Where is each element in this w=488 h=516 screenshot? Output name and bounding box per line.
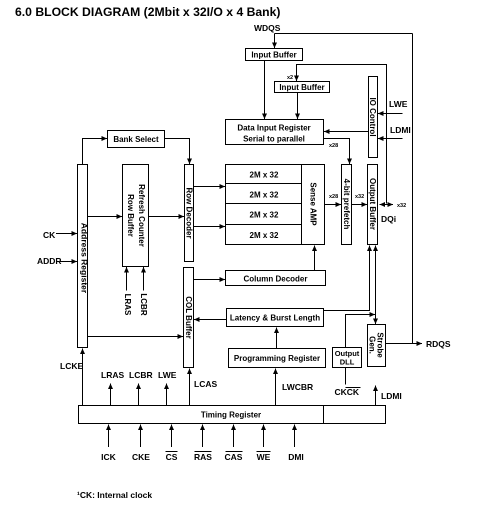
input buffer U2 (data) (275, 82, 330, 93)
svg-text:LCAS: LCAS (194, 379, 217, 389)
svg-text:Input Buffer: Input Buffer (251, 51, 296, 60)
svg-text:DLL: DLL (340, 358, 355, 367)
programming register (229, 349, 326, 368)
column decoder (226, 271, 326, 286)
svg-text:LRAS: LRAS (101, 370, 124, 380)
address register (78, 165, 90, 348)
svg-text:4-bit prefetch: 4-bit prefetch (342, 179, 351, 230)
pin WEbar label (257, 452, 271, 463)
wire LCBR into refresh counter (143, 267, 145, 291)
svg-text:WE: WE (257, 452, 271, 462)
svg-text:LWCBR: LWCBR (282, 382, 313, 392)
svg-text:Data Input Register: Data Input Register (237, 124, 310, 133)
svg-text:Output Buffer: Output Buffer (368, 178, 377, 230)
svg-text:DMI: DMI (288, 452, 304, 462)
wire LCKE timing register to address register (82, 349, 84, 406)
pin CSbar label (166, 452, 178, 463)
wire input buffer 1 to data input register (264, 61, 266, 120)
svg-text:Serial to parallel: Serial to parallel (243, 135, 305, 144)
data input register (serial to parallel) (226, 120, 324, 145)
wire input buffer 2 to data input register (297, 93, 299, 120)
svg-text:2M x 32: 2M x 32 (250, 191, 279, 200)
svg-text:6.0 BLOCK DIAGRAM (2Mbit x 32I: 6.0 BLOCK DIAGRAM (2Mbit x 32I/O x 4 Ban… (15, 5, 280, 19)
svg-text:Sense AMP: Sense AMP (309, 182, 318, 226)
wire RAS input (202, 425, 204, 448)
wire bank select to row decoder (165, 139, 190, 165)
wire WDQS down to input buffer (274, 34, 276, 49)
svg-text:Row Decoder: Row Decoder (185, 187, 194, 238)
wire right vertical rail WDQS to RDQS line (412, 34, 414, 344)
wire address register to col buffer (lower) (88, 336, 184, 338)
wire latency to col buffer (194, 319, 227, 321)
wire LWE stub (166, 384, 168, 406)
svg-text:Row Buffer: Row Buffer (126, 194, 135, 237)
input buffer U1 (WDQS) (246, 49, 303, 61)
wire ADDR to address register (60, 261, 77, 263)
svg-text:Bank Select: Bank Select (113, 135, 159, 144)
wire CK to address register (56, 233, 77, 235)
wire address register to bank select (83, 139, 108, 165)
svg-text:x28: x28 (329, 143, 338, 149)
svg-text:Address Register: Address Register (80, 223, 90, 294)
pin RASbar label (194, 452, 212, 463)
timing register (79, 406, 386, 424)
wire 4-bit prefetch to output buffer (352, 204, 368, 206)
4-bit prefetch (342, 165, 352, 245)
svg-text:LRAS: LRAS (123, 294, 132, 316)
svg-text:IO Control: IO Control (368, 97, 377, 136)
svg-text:CAS: CAS (225, 452, 243, 462)
wire col buffer to column decoder (194, 279, 226, 281)
wire LRAS into refresh counter (126, 267, 128, 291)
wire address register to refresh counter (88, 216, 123, 218)
memory bank array 2M x 32 x4 (226, 165, 302, 245)
wire column decoder to sense amp (314, 246, 316, 271)
wire strobe gen to RDQS (386, 343, 423, 345)
wire LWCBR timing register to programming register (275, 369, 277, 406)
svg-text:LCBR: LCBR (139, 293, 148, 315)
svg-text:x32: x32 (397, 203, 406, 209)
svg-text:x2: x2 (287, 75, 293, 81)
svg-text:CS: CS (166, 452, 178, 462)
svg-text:LCBR: LCBR (129, 370, 153, 380)
svg-text:RDQS: RDQS (426, 339, 451, 349)
wire sense amp to 4-bit prefetch (325, 204, 342, 206)
wire LWE stub into IO control (378, 113, 403, 115)
output DLL (333, 348, 362, 368)
svg-text:CKCK: CKCK (335, 387, 360, 397)
svg-text:Refresh Counter: Refresh Counter (137, 184, 146, 247)
wire DLL rail down to strobe gen (375, 315, 377, 325)
wire DQ riser to input buffer 2 (297, 65, 387, 204)
wire refresh counter to row decoder (149, 216, 185, 218)
wire LRAS stub (110, 384, 112, 406)
svg-text:LWE: LWE (389, 99, 408, 109)
refresh counter / row buffer (123, 165, 149, 267)
svg-text:LDMI: LDMI (381, 391, 402, 401)
svg-text:2M x 32: 2M x 32 (250, 231, 279, 240)
wire WE input (263, 425, 265, 448)
svg-text:CK: CK (43, 230, 56, 240)
svg-text:WDQS: WDQS (254, 23, 281, 33)
wire CK CKbar to output DLL (345, 368, 347, 385)
col buffer (184, 268, 194, 368)
pin CASbar label (225, 452, 243, 463)
wire LDMI stub into IO control (378, 138, 403, 140)
svg-text:COL Buffer: COL Buffer (184, 296, 193, 339)
latency and burst length (227, 309, 324, 327)
wire CS input (171, 425, 173, 448)
wire DLL rail up to output buffer (375, 246, 377, 315)
wire output DLL to strobe gen rail (346, 315, 376, 348)
wire data input register to 4-bit prefetch (324, 139, 350, 165)
svg-text:2M x 32: 2M x 32 (250, 211, 279, 220)
svg-text:CKE: CKE (132, 452, 150, 462)
wire CAS input (233, 425, 235, 448)
svg-text:Programming Register: Programming Register (234, 354, 320, 363)
svg-text:LDMI: LDMI (390, 125, 411, 135)
svg-text:x32: x32 (355, 194, 364, 200)
wire programming register to latency (276, 328, 278, 349)
svg-text:x28: x28 (329, 194, 338, 200)
sense amp (302, 165, 325, 245)
svg-text:LCKE: LCKE (60, 361, 83, 371)
wire CKE input (140, 425, 142, 448)
wire LDMI stub from timing register (375, 386, 377, 406)
svg-text:ICK: ICK (101, 452, 117, 462)
wire ICK input (108, 425, 110, 448)
svg-text:Gen.: Gen. (368, 336, 377, 354)
wire DMI input (294, 425, 296, 448)
wire LCBR stub (138, 384, 140, 406)
svg-text:2M x 32: 2M x 32 (250, 171, 279, 180)
svg-text:Timing Register: Timing Register (201, 411, 261, 420)
svg-text:Column Decoder: Column Decoder (243, 275, 307, 284)
bank select (108, 131, 165, 148)
svg-text:Input Buffer: Input Buffer (279, 83, 324, 92)
wire row decoder to bank array (upper) (194, 186, 226, 188)
svg-text:RAS: RAS (194, 452, 212, 462)
svg-text:¹CK: Internal clock: ¹CK: Internal clock (77, 490, 152, 500)
wire IO control to data input register (324, 131, 369, 133)
node CK CKbar label (335, 387, 361, 397)
svg-text:ADDR: ADDR (37, 256, 62, 266)
wire row decoder to bank array (lower) (194, 226, 226, 228)
strobe gen (368, 325, 386, 367)
wire LCAS timing register to col buffer (189, 369, 191, 406)
output buffer (368, 165, 378, 245)
svg-text:LWE: LWE (158, 370, 177, 380)
svg-text:Latency & Burst Length: Latency & Burst Length (230, 314, 320, 323)
svg-text:DQi: DQi (381, 214, 396, 224)
row decoder (185, 165, 194, 262)
wire latency to output buffer (324, 246, 370, 311)
wire WDQS horizontal to right rail (275, 33, 413, 35)
wire DQ bidirectional (380, 204, 394, 206)
IO control block (368, 77, 378, 158)
